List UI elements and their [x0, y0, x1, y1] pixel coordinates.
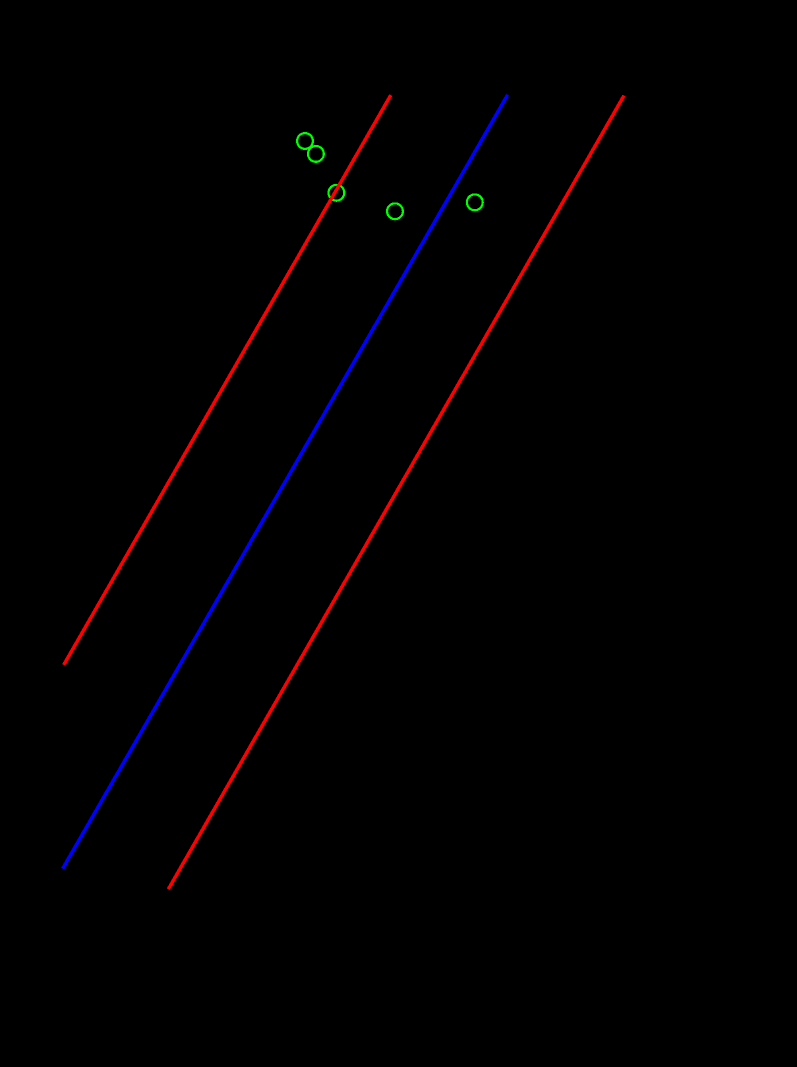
- support vector circle 4: [387, 203, 403, 219]
- red margin line (lower-right): [168, 96, 624, 890]
- blue decision boundary line: [63, 95, 508, 869]
- support vector circle 3: [329, 185, 345, 201]
- support vector circle 1: [297, 133, 313, 149]
- red margin line (upper-left): [64, 95, 391, 665]
- support vector circle 2: [308, 146, 324, 162]
- support vector circle 5: [467, 194, 483, 210]
